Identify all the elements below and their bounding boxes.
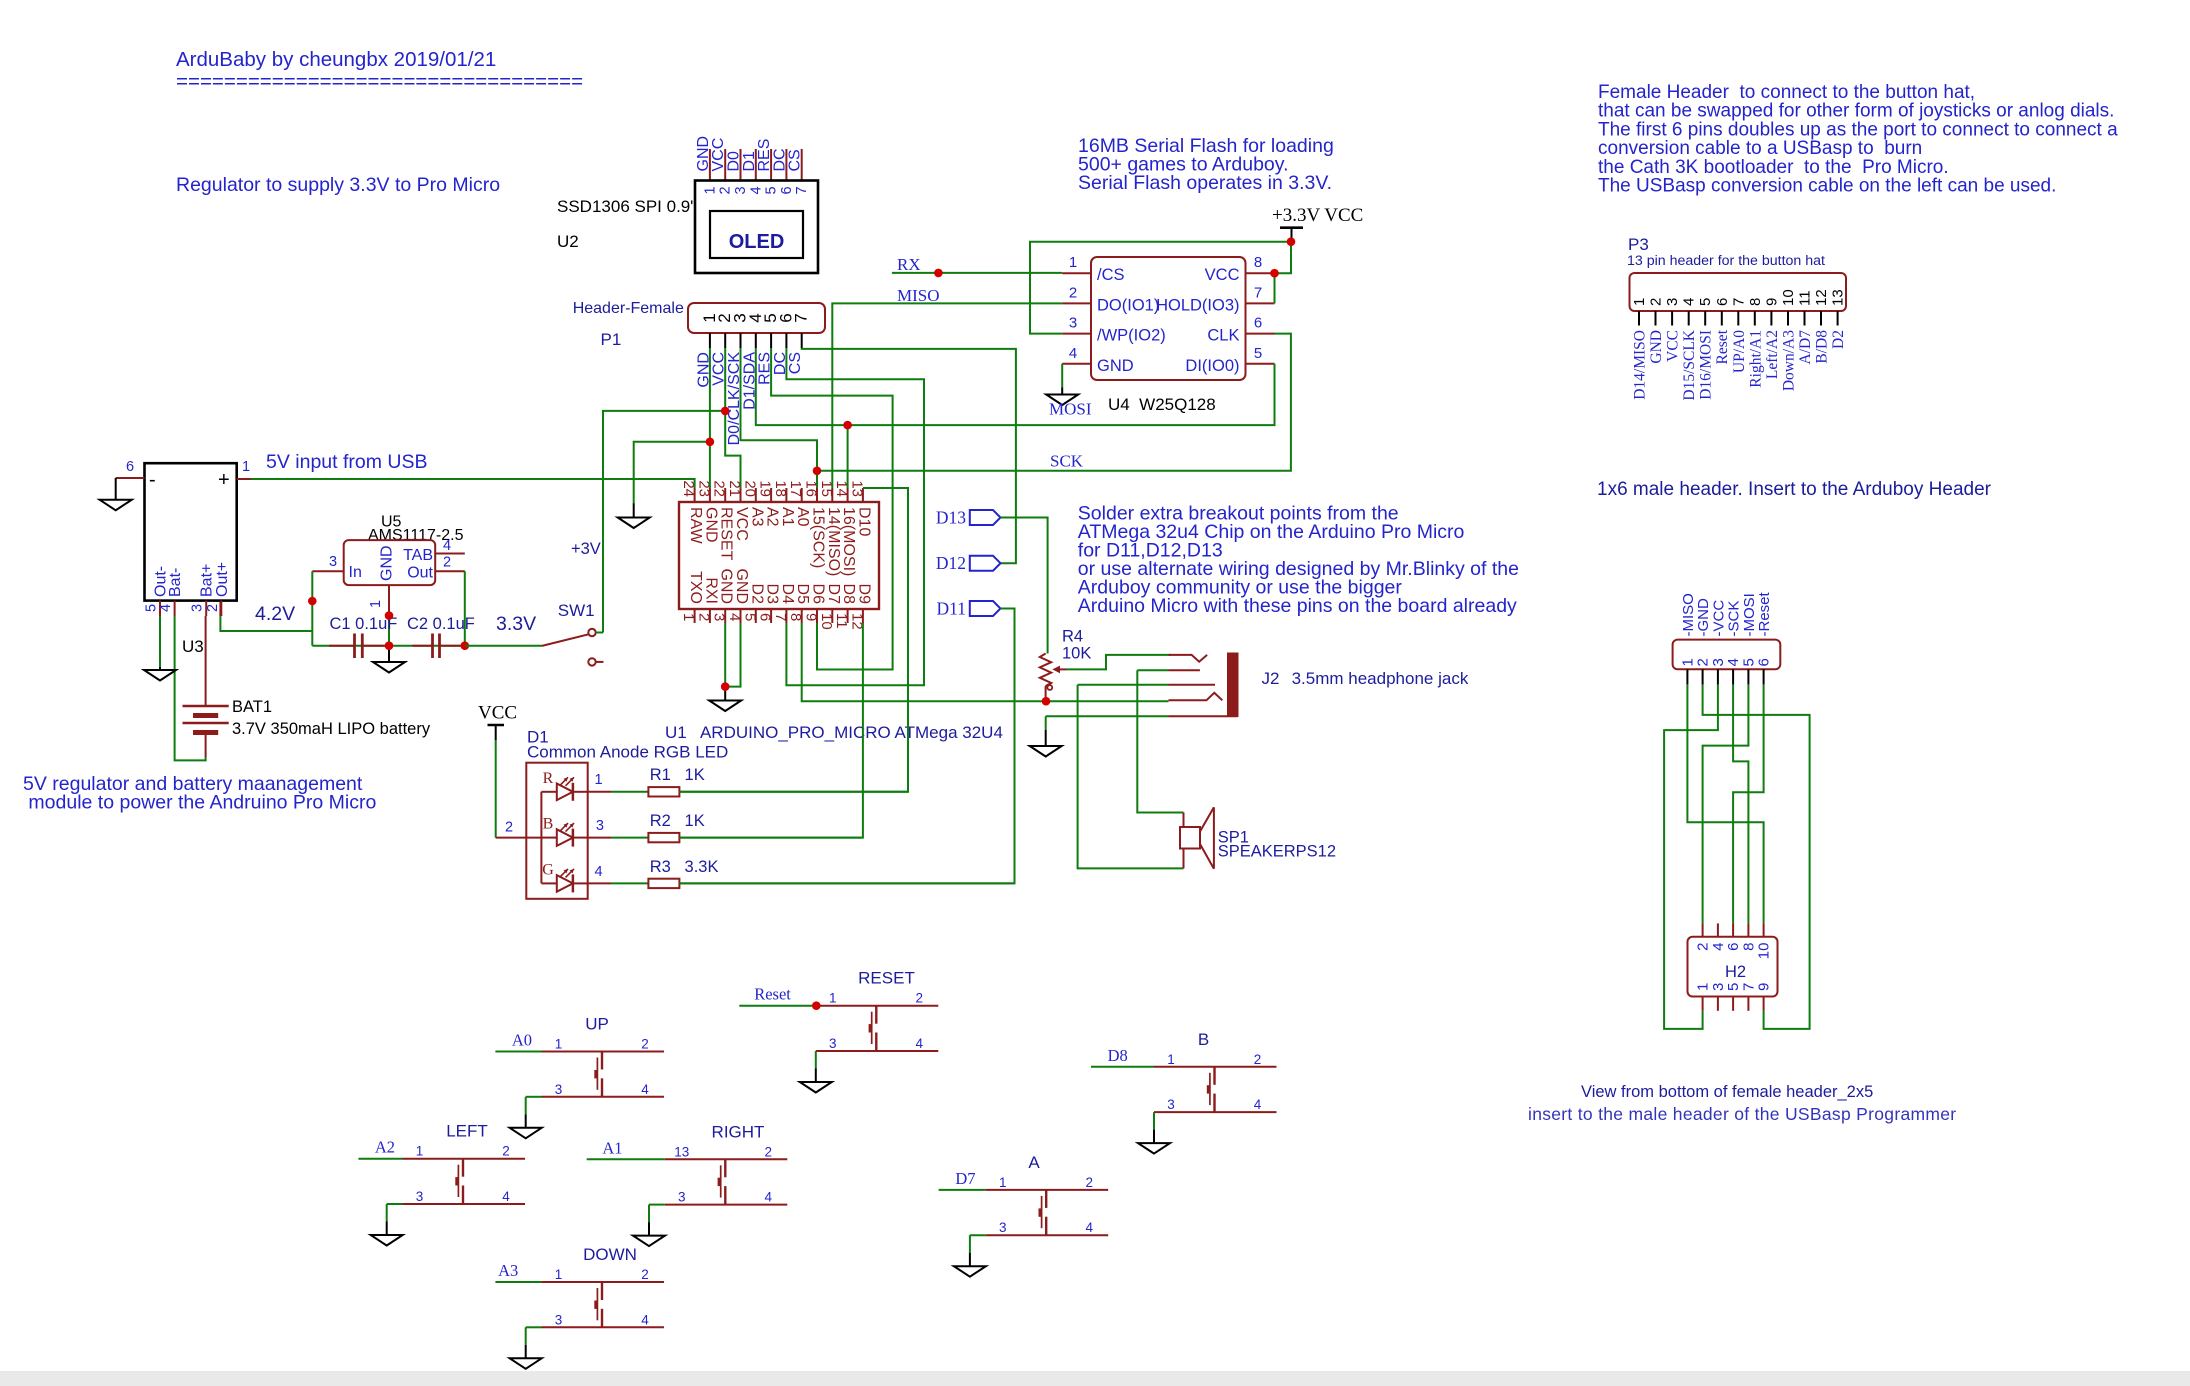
svg-text:D2: D2 — [1830, 330, 1847, 349]
svg-text:D11: D11 — [937, 599, 967, 619]
svg-text:13: 13 — [674, 1144, 689, 1159]
svg-text:3: 3 — [1167, 1097, 1175, 1112]
svg-text:VCC: VCC — [1665, 330, 1682, 362]
svg-text:1: 1 — [829, 991, 837, 1006]
svg-text:Left/A2: Left/A2 — [1764, 330, 1781, 379]
svg-text:1: 1 — [368, 600, 384, 608]
svg-text:UP/A0: UP/A0 — [1731, 330, 1748, 373]
svg-text:3: 3 — [596, 818, 604, 834]
svg-text:2: 2 — [916, 991, 924, 1006]
svg-text:5: 5 — [764, 186, 780, 194]
svg-text:D16/MOSI: D16/MOSI — [1698, 330, 1715, 400]
svg-text:SSD1306 SPI 0.9": SSD1306 SPI 0.9" — [557, 197, 696, 216]
svg-text:6: 6 — [1756, 658, 1773, 666]
svg-text:-: - — [149, 469, 156, 491]
svg-text:RX: RX — [897, 255, 921, 274]
svg-text:3: 3 — [829, 1036, 837, 1051]
svg-text:B: B — [1198, 1030, 1209, 1049]
svg-text:17: 17 — [787, 480, 804, 497]
svg-text:A0: A0 — [794, 507, 811, 527]
svg-text:3: 3 — [1069, 315, 1077, 332]
svg-text:D15/SCLK: D15/SCLK — [1681, 329, 1698, 400]
svg-text:3: 3 — [1664, 298, 1681, 306]
svg-text:A0: A0 — [512, 1031, 532, 1050]
svg-text:4: 4 — [1254, 1097, 1262, 1112]
svg-text:DOWN: DOWN — [583, 1245, 637, 1264]
svg-text:4: 4 — [1085, 1220, 1093, 1235]
svg-text:16(MOSI): 16(MOSI) — [840, 507, 857, 576]
svg-text:Out: Out — [407, 565, 433, 582]
svg-text:3: 3 — [999, 1220, 1007, 1235]
svg-text:LEFT: LEFT — [446, 1122, 488, 1141]
svg-text:2: 2 — [765, 1144, 773, 1159]
svg-text:5: 5 — [1697, 298, 1714, 306]
svg-text:8: 8 — [1747, 298, 1764, 306]
svg-text:D8: D8 — [1108, 1046, 1128, 1065]
svg-text:4: 4 — [443, 538, 451, 554]
svg-text:In: In — [349, 564, 362, 581]
svg-text:D13: D13 — [936, 508, 966, 528]
svg-text:11: 11 — [1797, 290, 1814, 306]
svg-text:H2: H2 — [1725, 963, 1746, 981]
svg-text:RXI: RXI — [702, 577, 719, 604]
svg-text:9: 9 — [1756, 983, 1773, 991]
svg-text:Serial Flash operates in 3.3V.: Serial Flash operates in 3.3V. — [1078, 172, 1332, 194]
svg-text:4: 4 — [641, 1082, 649, 1097]
svg-text:A1: A1 — [602, 1138, 622, 1157]
svg-text:D9: D9 — [855, 584, 872, 605]
svg-text:14(MISO): 14(MISO) — [825, 507, 842, 576]
svg-text:Arduino Micro with these pins: Arduino Micro with these pins on the boa… — [1078, 595, 1517, 617]
svg-text:D10: D10 — [855, 507, 872, 536]
svg-text:R2 1K: R2 1K — [650, 812, 705, 830]
svg-text:UP: UP — [585, 1015, 609, 1034]
svg-text:GND: GND — [379, 545, 396, 581]
svg-text:CLK: CLK — [1207, 327, 1239, 345]
svg-text:10: 10 — [1756, 943, 1773, 960]
svg-text:22: 22 — [711, 480, 728, 497]
svg-text:RIGHT: RIGHT — [712, 1122, 765, 1141]
svg-text:VCC: VCC — [733, 507, 750, 541]
svg-text:/WP(IO2): /WP(IO2) — [1097, 327, 1166, 345]
svg-text:GND: GND — [718, 568, 735, 604]
svg-text:MISO: MISO — [897, 286, 940, 305]
svg-text:19: 19 — [757, 480, 774, 497]
svg-text:GND: GND — [733, 568, 750, 604]
svg-text:DO(IO1): DO(IO1) — [1097, 296, 1159, 314]
svg-text:2: 2 — [1254, 1052, 1262, 1067]
svg-text:1: 1 — [1631, 298, 1648, 306]
svg-text:7: 7 — [1730, 298, 1747, 306]
svg-text:4: 4 — [748, 186, 764, 194]
svg-text:2: 2 — [1648, 298, 1665, 306]
svg-text:1: 1 — [702, 186, 718, 194]
svg-text:A2: A2 — [764, 507, 781, 527]
svg-text:SPEAKERPS12: SPEAKERPS12 — [1218, 843, 1336, 861]
svg-text:R4: R4 — [1062, 628, 1083, 646]
svg-text:1: 1 — [1069, 254, 1077, 271]
svg-text:HOLD(IO3): HOLD(IO3) — [1156, 296, 1239, 314]
svg-text:RESET: RESET — [718, 507, 735, 561]
svg-text:GND: GND — [1648, 330, 1665, 364]
svg-text:7: 7 — [772, 613, 789, 621]
svg-text:4.2V: 4.2V — [255, 603, 295, 625]
svg-text:8: 8 — [1254, 254, 1262, 271]
svg-text:3: 3 — [733, 186, 749, 194]
svg-text:TAB: TAB — [403, 547, 433, 564]
svg-text:Right/A1: Right/A1 — [1747, 330, 1764, 388]
svg-text:4: 4 — [765, 1190, 773, 1205]
svg-text:3: 3 — [678, 1190, 686, 1205]
svg-text:2: 2 — [205, 604, 221, 612]
svg-text:Reset: Reset — [1714, 329, 1731, 364]
svg-text:-Reset: -Reset — [1756, 591, 1773, 636]
svg-text:1: 1 — [555, 1037, 563, 1052]
svg-text:TXO: TXO — [687, 571, 704, 604]
svg-text:SW1: SW1 — [558, 601, 595, 620]
svg-text:4: 4 — [726, 613, 743, 621]
svg-text:3: 3 — [329, 554, 337, 570]
svg-text:9: 9 — [1763, 298, 1780, 306]
svg-text:+: + — [218, 469, 230, 491]
svg-text:2: 2 — [443, 555, 451, 571]
svg-text:U2: U2 — [557, 232, 579, 251]
svg-text:D2: D2 — [748, 584, 765, 605]
svg-text:U3: U3 — [182, 637, 204, 656]
svg-text:GND: GND — [702, 507, 719, 543]
svg-text:Common Anode RGB LED: Common Anode RGB LED — [527, 743, 728, 762]
svg-text:1x6 male header. Insert to the: 1x6 male header. Insert to the Arduboy H… — [1597, 479, 1992, 500]
svg-text:15(SCK): 15(SCK) — [810, 507, 827, 568]
svg-text:3: 3 — [416, 1189, 424, 1204]
svg-text:2: 2 — [718, 186, 734, 194]
svg-text:10K: 10K — [1062, 645, 1091, 663]
svg-text:6: 6 — [757, 613, 774, 621]
svg-text:1: 1 — [1167, 1052, 1175, 1067]
svg-text:insert to the male header of t: insert to the male header of the USBasp … — [1528, 1104, 1956, 1124]
svg-text:7: 7 — [792, 313, 811, 322]
svg-text:5V input from USB: 5V input from USB — [266, 451, 427, 473]
svg-text:3: 3 — [555, 1082, 563, 1097]
svg-text:R1 1K: R1 1K — [650, 766, 705, 784]
svg-text:2: 2 — [1085, 1175, 1093, 1190]
svg-text:6: 6 — [779, 186, 795, 194]
svg-text:/CS: /CS — [1097, 266, 1125, 284]
svg-text:D7: D7 — [955, 1169, 975, 1188]
svg-text:==============================: ================================== — [176, 70, 583, 93]
svg-text:U4 W25Q128: U4 W25Q128 — [1108, 395, 1216, 414]
svg-text:3.7V 350maH LIPO battery: 3.7V 350maH LIPO battery — [232, 720, 431, 738]
svg-text:Out+: Out+ — [214, 562, 231, 597]
svg-text:R3 3.3K: R3 3.3K — [650, 858, 719, 876]
svg-text:2: 2 — [1069, 284, 1077, 301]
svg-text:13 pin header for the button h: 13 pin header for the button hat — [1627, 253, 1825, 269]
svg-text:6: 6 — [1714, 298, 1731, 306]
svg-text:4: 4 — [502, 1189, 510, 1204]
svg-text:Header-Female: Header-Female — [573, 300, 684, 317]
svg-text:D5: D5 — [794, 584, 811, 605]
svg-text:4: 4 — [916, 1036, 924, 1051]
svg-text:A3: A3 — [498, 1261, 518, 1280]
svg-text:3: 3 — [555, 1312, 563, 1327]
svg-text:CS: CS — [787, 352, 804, 374]
svg-text:BAT1: BAT1 — [232, 698, 272, 716]
svg-text:ArduBaby by cheungbx 2019/01/2: ArduBaby by cheungbx 2019/01/21 — [176, 48, 496, 71]
svg-text:J2: J2 — [1262, 669, 1280, 688]
svg-text:7: 7 — [1254, 284, 1262, 301]
svg-text:+3.3V VCC: +3.3V VCC — [1272, 205, 1363, 226]
svg-text:5: 5 — [144, 604, 160, 612]
svg-text:Bat-: Bat- — [167, 568, 184, 597]
svg-text:1: 1 — [680, 613, 697, 621]
svg-text:A/D7: A/D7 — [1797, 330, 1814, 365]
svg-text:3.3V: 3.3V — [496, 613, 536, 635]
svg-text:D4: D4 — [779, 584, 796, 605]
svg-text:Reset: Reset — [754, 985, 791, 1004]
svg-text:1: 1 — [999, 1175, 1007, 1190]
svg-text:5: 5 — [1254, 345, 1262, 362]
svg-text:4: 4 — [158, 604, 174, 612]
svg-text:U1 ARDUINO_PRO_MICRO ATMega: U1 ARDUINO_PRO_MICRO ATMega 32U4 — [665, 723, 1003, 742]
svg-text:C2 0.1uF: C2 0.1uF — [407, 615, 475, 633]
svg-text:6: 6 — [1254, 315, 1262, 332]
svg-text:+3V: +3V — [571, 540, 601, 558]
svg-text:18: 18 — [772, 480, 789, 497]
svg-text:Regulator to supply 3.3V to Pr: Regulator to supply 3.3V to Pro Micro — [176, 174, 500, 196]
svg-text:P3: P3 — [1628, 235, 1649, 254]
svg-text:module to power the Andruino P: module to power the Andruino Pro Micro — [23, 792, 377, 814]
svg-text:View from bottom of female hea: View from bottom of female header_2x5 — [1581, 1083, 1873, 1101]
svg-text:11: 11 — [833, 613, 850, 629]
svg-text:A: A — [1028, 1153, 1040, 1172]
svg-text:1: 1 — [594, 772, 602, 788]
svg-text:3: 3 — [711, 613, 728, 621]
svg-text:13: 13 — [1830, 289, 1847, 306]
svg-text:1: 1 — [555, 1267, 563, 1282]
svg-text:SCK: SCK — [1050, 452, 1084, 471]
svg-text:12: 12 — [1813, 289, 1830, 306]
svg-text:VCC: VCC — [1205, 266, 1240, 284]
svg-text:The USBasp conversion cable on: The USBasp conversion cable on the left … — [1598, 176, 2056, 197]
svg-text:DI(IO0): DI(IO0) — [1185, 357, 1239, 375]
svg-text:Down/A3: Down/A3 — [1781, 330, 1798, 391]
svg-text:VCC: VCC — [478, 703, 517, 724]
svg-text:5: 5 — [741, 613, 758, 621]
svg-text:A2: A2 — [375, 1138, 395, 1157]
svg-text:A1: A1 — [779, 507, 796, 527]
svg-text:4: 4 — [641, 1312, 649, 1327]
svg-text:7: 7 — [794, 186, 810, 194]
svg-text:D3: D3 — [764, 584, 781, 605]
svg-text:D12: D12 — [936, 553, 966, 573]
svg-text:R: R — [543, 770, 554, 787]
svg-text:9: 9 — [803, 613, 820, 621]
svg-text:B: B — [543, 816, 554, 833]
svg-text:P1: P1 — [601, 330, 622, 349]
svg-text:A3: A3 — [748, 507, 765, 527]
svg-text:2: 2 — [695, 613, 712, 621]
svg-text:2: 2 — [505, 820, 513, 836]
svg-text:10: 10 — [818, 613, 835, 630]
svg-text:OLED: OLED — [729, 231, 785, 253]
svg-text:4: 4 — [594, 864, 602, 880]
svg-text:6: 6 — [126, 459, 134, 475]
svg-text:D6: D6 — [810, 584, 827, 605]
svg-text:13: 13 — [848, 480, 865, 497]
svg-text:1: 1 — [242, 459, 250, 475]
svg-text:G: G — [542, 861, 554, 878]
svg-text:4: 4 — [1069, 345, 1077, 362]
svg-text:B/D8: B/D8 — [1814, 330, 1831, 364]
svg-text:20: 20 — [741, 480, 758, 497]
svg-text:2: 2 — [641, 1037, 649, 1052]
svg-text:GND: GND — [1097, 357, 1134, 375]
svg-text:MOSI: MOSI — [1049, 400, 1092, 419]
svg-text:RAW: RAW — [687, 507, 704, 545]
svg-text:2: 2 — [641, 1267, 649, 1282]
svg-text:10: 10 — [1780, 289, 1797, 306]
svg-text:3: 3 — [190, 604, 206, 612]
svg-text:3.5mm headphone jack: 3.5mm headphone jack — [1292, 669, 1469, 688]
svg-text:D7: D7 — [825, 584, 842, 605]
svg-text:2: 2 — [502, 1144, 510, 1159]
svg-text:D8: D8 — [840, 584, 857, 605]
svg-text:RESET: RESET — [858, 969, 915, 988]
svg-text:4: 4 — [1681, 298, 1698, 306]
svg-text:D14/MISO: D14/MISO — [1632, 330, 1649, 400]
svg-text:8: 8 — [787, 613, 804, 621]
svg-text:1: 1 — [416, 1144, 424, 1159]
